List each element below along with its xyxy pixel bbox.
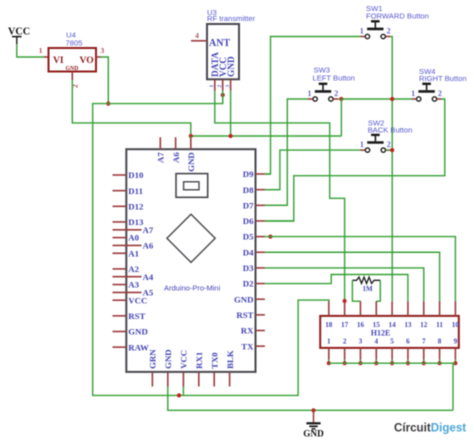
svg-text:D2: D2 <box>243 279 254 289</box>
svg-text:D5: D5 <box>243 232 254 242</box>
svg-text:2: 2 <box>387 140 391 149</box>
svg-text:3: 3 <box>101 46 105 55</box>
svg-text:GND: GND <box>227 56 237 77</box>
svg-text:CírcuitDigest: CírcuitDigest <box>394 422 466 435</box>
svg-text:1M: 1M <box>362 285 373 293</box>
svg-text:A6: A6 <box>143 241 154 251</box>
svg-text:LEFT Button: LEFT Button <box>313 73 356 82</box>
svg-text:RAW: RAW <box>128 342 149 352</box>
svg-text:TX: TX <box>241 341 254 351</box>
svg-text:8: 8 <box>438 337 442 345</box>
svg-text:TX0: TX0 <box>209 352 219 369</box>
svg-text:1: 1 <box>360 140 364 149</box>
svg-text:18: 18 <box>325 321 333 329</box>
svg-text:6: 6 <box>406 337 410 345</box>
svg-text:2: 2 <box>343 337 347 345</box>
svg-text:D3: D3 <box>243 263 254 273</box>
svg-text:D6: D6 <box>243 216 254 226</box>
svg-text:A7: A7 <box>156 152 166 163</box>
svg-text:RF transmitter: RF transmitter <box>207 14 256 23</box>
svg-text:VO: VO <box>80 55 94 66</box>
svg-text:10: 10 <box>452 321 460 329</box>
svg-text:A3: A3 <box>128 280 139 290</box>
svg-text:A1: A1 <box>128 248 139 258</box>
svg-text:1: 1 <box>39 46 43 55</box>
svg-text:A0: A0 <box>128 233 139 243</box>
svg-text:A2: A2 <box>128 264 139 274</box>
svg-text:GND: GND <box>128 327 148 337</box>
svg-text:A5: A5 <box>143 288 154 298</box>
svg-text:D11: D11 <box>128 186 143 196</box>
svg-text:D9: D9 <box>243 169 254 179</box>
svg-text:1: 1 <box>360 26 364 35</box>
svg-text:D8: D8 <box>243 185 254 195</box>
svg-text:7805: 7805 <box>66 39 83 48</box>
svg-text:4: 4 <box>374 337 378 345</box>
svg-text:5: 5 <box>390 337 394 345</box>
svg-text:RST: RST <box>236 310 253 320</box>
svg-text:H12E: H12E <box>371 329 391 338</box>
svg-text:2: 2 <box>438 89 442 98</box>
svg-text:A4: A4 <box>143 272 154 282</box>
svg-text:2: 2 <box>387 26 391 35</box>
svg-text:D4: D4 <box>243 247 254 257</box>
svg-text:VI: VI <box>53 55 64 66</box>
svg-text:D7: D7 <box>243 200 254 210</box>
svg-text:11: 11 <box>436 321 443 329</box>
svg-text:A7: A7 <box>143 225 154 235</box>
svg-text:FORWARD Button: FORWARD Button <box>366 12 429 21</box>
svg-text:GRN: GRN <box>148 349 158 369</box>
svg-text:1: 1 <box>209 85 215 88</box>
svg-text:GND: GND <box>66 66 79 72</box>
svg-text:1: 1 <box>411 89 415 98</box>
svg-text:BLK: BLK <box>225 350 235 369</box>
svg-text:GND: GND <box>186 152 196 172</box>
svg-text:4: 4 <box>195 31 199 40</box>
svg-text:9: 9 <box>454 337 458 345</box>
svg-text:A6: A6 <box>171 152 181 163</box>
svg-text:1: 1 <box>327 337 331 345</box>
svg-text:RX1: RX1 <box>194 352 204 369</box>
svg-text:3: 3 <box>225 85 231 88</box>
svg-text:7: 7 <box>422 337 426 345</box>
svg-text:12: 12 <box>420 321 428 329</box>
svg-text:GND: GND <box>163 349 173 369</box>
svg-text:16: 16 <box>357 321 365 329</box>
svg-text:17: 17 <box>341 321 349 329</box>
svg-text:GND: GND <box>303 429 324 439</box>
svg-text:RIGHT Button: RIGHT Button <box>419 74 467 83</box>
svg-text:VCC: VCC <box>179 350 189 369</box>
svg-text:D12: D12 <box>128 201 144 211</box>
svg-text:ANT: ANT <box>209 38 230 49</box>
svg-text:3: 3 <box>359 337 363 345</box>
svg-text:1: 1 <box>308 89 312 98</box>
svg-text:Arduino-Pro-Mini: Arduino-Pro-Mini <box>164 284 221 293</box>
svg-text:D10: D10 <box>128 170 144 180</box>
svg-text:2: 2 <box>334 89 338 98</box>
svg-text:RST: RST <box>128 311 145 321</box>
svg-text:13: 13 <box>404 321 412 329</box>
svg-text:GND: GND <box>234 294 254 304</box>
svg-text:BACK Button: BACK Button <box>368 126 413 135</box>
svg-text:RX: RX <box>241 326 254 336</box>
svg-text:2: 2 <box>217 85 223 88</box>
